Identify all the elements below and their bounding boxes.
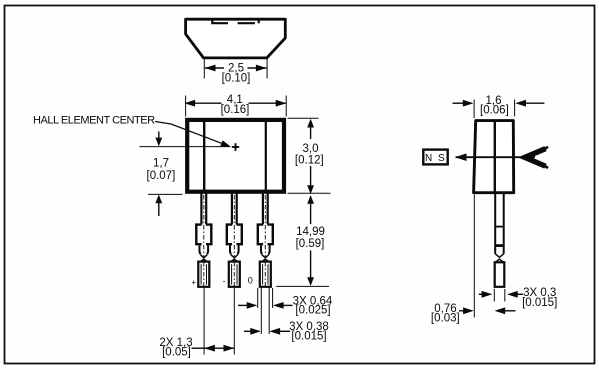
body bottom extension line left: [148, 193, 183, 195]
hall element center reference line: [140, 146, 231, 148]
svg-text:[0.05]: [0.05]: [162, 347, 191, 359]
magnetic field arrow line: [456, 156, 535, 158]
dimension text 14,99 [0.59]: [296, 226, 325, 250]
dimension text 3X 0,38 [0.015]: [289, 321, 329, 343]
leg labels + - 0: [191, 275, 252, 286]
side view lead: [495, 194, 505, 287]
svg-text:[0.025]: [0.025]: [295, 305, 330, 317]
dimension 3X 0,3 extension lines: [494, 289, 505, 302]
dimension 2,5 arrows and line: [205, 65, 267, 72]
dimension 3X 0,3 arrows: [479, 291, 523, 298]
dimension 3X 0,38 arrows: [244, 328, 290, 335]
lead 2 (-): [227, 194, 242, 287]
svg-text:[0.015]: [0.015]: [291, 331, 326, 343]
dimension text 1,7 [0.07]: [147, 158, 176, 183]
dimension 4,1 extension lines: [186, 96, 287, 117]
svg-text:[0.07]: [0.07]: [147, 170, 176, 182]
svg-text:[0.10]: [0.10]: [222, 73, 251, 85]
N S box: [423, 150, 447, 165]
hall element center cross mark: [232, 143, 239, 151]
svg-text:-: -: [223, 275, 226, 285]
side body outline: [474, 121, 514, 193]
leg tip reference line: [276, 285, 329, 287]
front body outline: [187, 120, 284, 192]
svg-text:[0.015]: [0.015]: [522, 297, 557, 309]
magnetic field arrow head (left): [455, 153, 467, 161]
dimension 1,6 arrows: [453, 100, 545, 107]
dimension text 4,1 [0.16]: [221, 94, 250, 116]
dimension text 3,0 [0.12]: [295, 143, 324, 167]
svg-text:1,7: 1,7: [153, 158, 169, 170]
svg-text:[0.03]: [0.03]: [431, 313, 460, 325]
dimension 0,76 arrows: [459, 307, 516, 314]
svg-text:N S: N S: [425, 153, 446, 164]
dimension text 2X 1,3 [0.05]: [159, 337, 192, 359]
dimension text 3X 0,3 [0.015]: [522, 287, 557, 309]
front body inner mold line right: [265, 122, 267, 190]
dimension 4,1 arrows and line: [184, 100, 286, 107]
dimension text 2,5 [0.10]: [222, 63, 251, 85]
svg-text:[0.59]: [0.59]: [296, 238, 325, 250]
dimension text 3X 0,64 [0.025]: [293, 296, 333, 317]
top view package outline: [186, 19, 286, 58]
dimension 2X 1,3 arrows: [192, 345, 235, 352]
svg-text:[0.06]: [0.06]: [480, 105, 509, 117]
leader line to hall element center: [155, 122, 231, 147]
lead 3 (0): [258, 194, 273, 287]
dimension text 0,76 [0.03]: [431, 303, 460, 325]
dimension 1,7 up arrow: [155, 195, 162, 217]
dimension 3,0 line and arrows: [307, 119, 314, 194]
dimension 14,99 line and arrows: [307, 195, 314, 286]
side body inner line: [494, 121, 496, 193]
top view notch (chamfer mark): [212, 19, 258, 23]
svg-text:3,0: 3,0: [303, 143, 319, 155]
dimension 1,7 down arrow: [155, 132, 162, 147]
front body inner mold line left: [203, 122, 205, 190]
dimension 1,6 extension lines: [474, 100, 514, 119]
magnetic field arrow fletching (right): [524, 147, 549, 168]
dimension 3X 0,64 arrows: [238, 302, 293, 309]
leg centerline extensions for pitch dim: [204, 288, 234, 355]
dimension 3,0 extension lines: [288, 118, 331, 193]
svg-text:0: 0: [248, 275, 253, 285]
svg-text:14,99: 14,99: [296, 226, 325, 238]
leg3 width extension lines: [258, 288, 273, 334]
svg-text:HALL ELEMENT CENTER: HALL ELEMENT CENTER: [33, 115, 155, 127]
svg-text:+: +: [191, 278, 196, 287]
dimension 2,5 extension lines: [204, 58, 267, 79]
dimension text 1,6 [0.06]: [480, 95, 509, 116]
svg-text:[0.16]: [0.16]: [221, 104, 250, 116]
body face extension line: [473, 195, 475, 318]
lead 1 (+): [196, 194, 211, 287]
svg-text:[0.12]: [0.12]: [295, 155, 324, 167]
HALL ELEMENT CENTER label: [33, 115, 155, 127]
